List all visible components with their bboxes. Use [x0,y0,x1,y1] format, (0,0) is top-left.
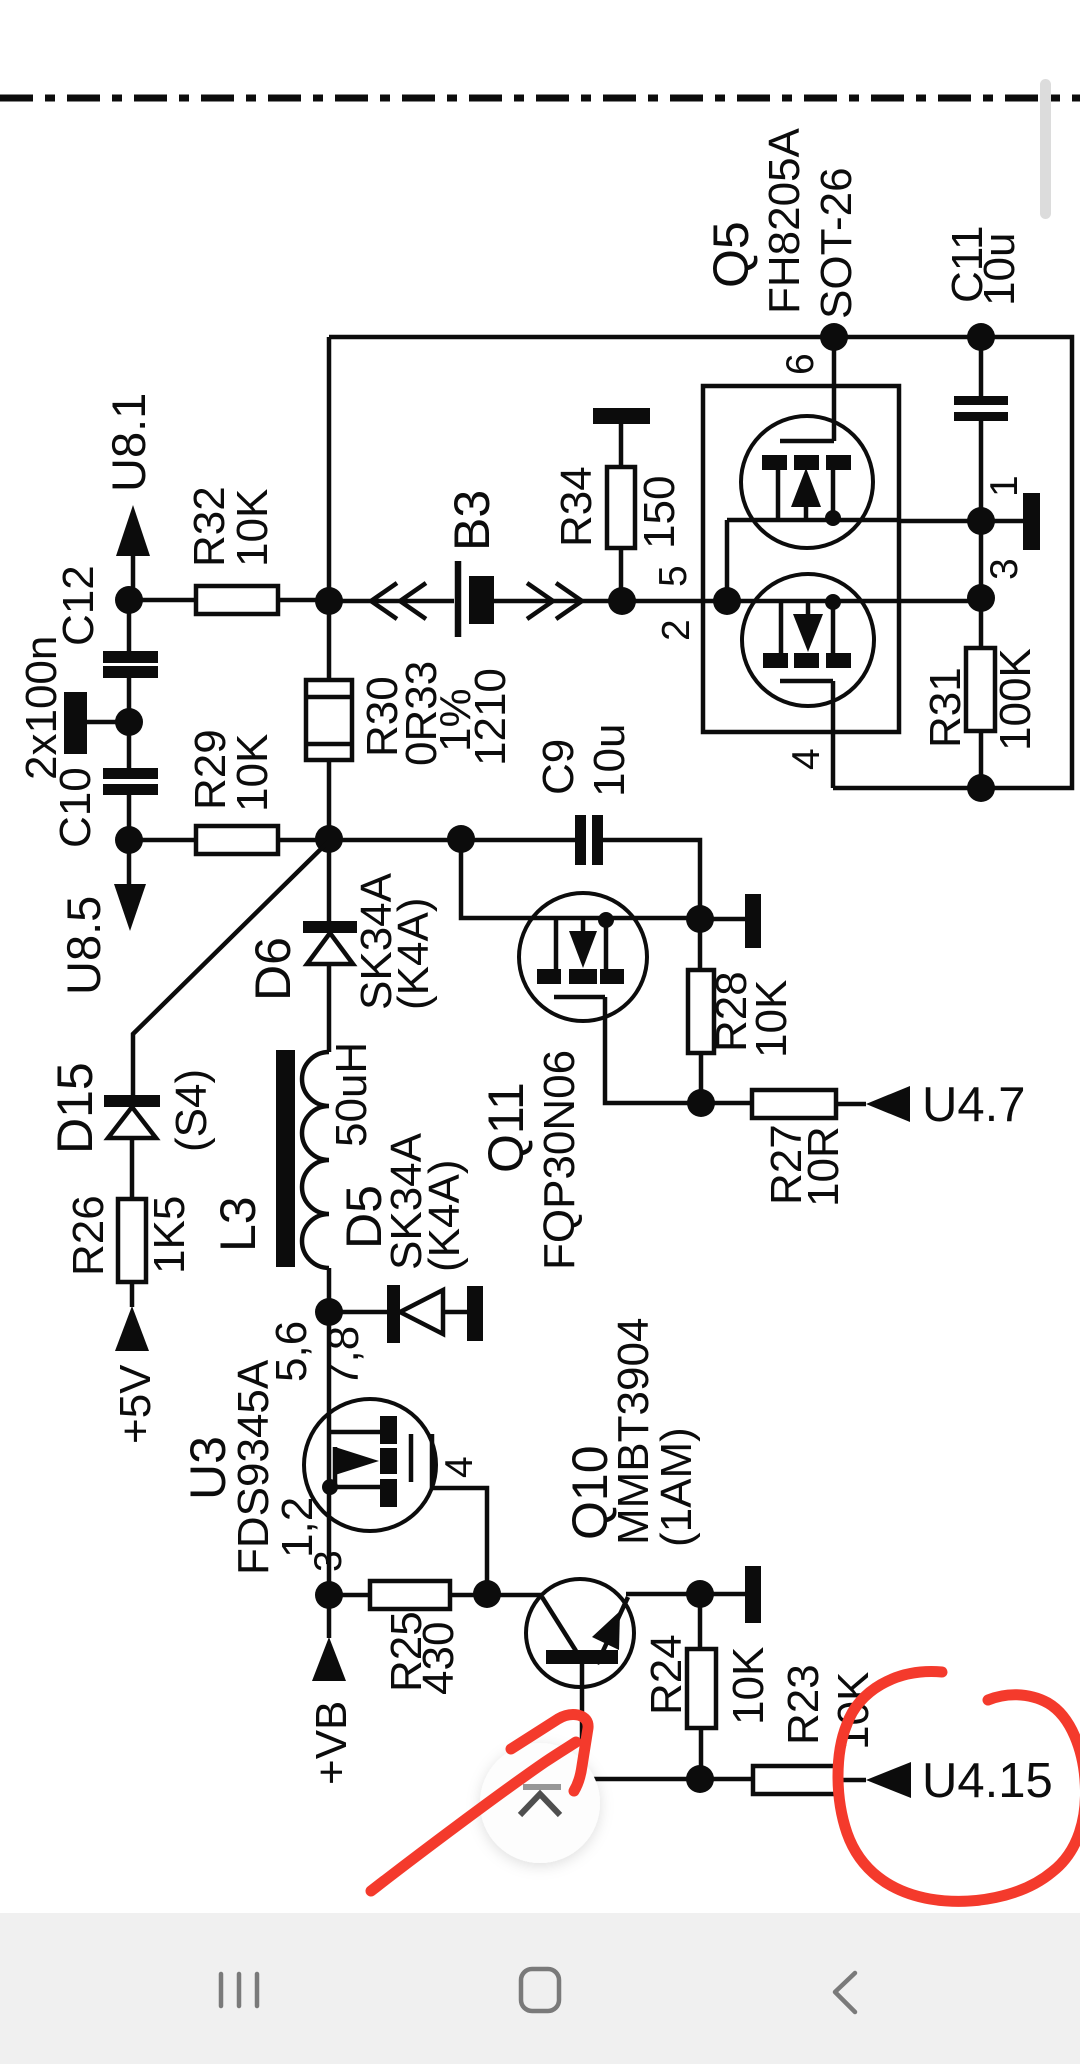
node pin 6 [820,323,848,351]
svg-text:3: 3 [307,1550,350,1572]
svg-text:(K4A): (K4A) [389,898,438,1010]
navigation bar [0,1913,1080,2064]
svg-text:C10: C10 [51,767,100,848]
svg-text:(S4): (S4) [167,1069,216,1152]
transistor Q5 upper MOSFET [727,416,899,601]
red annotation circle around U4.15 [838,1672,1080,1902]
resistor R25 [329,1581,542,1609]
ground bar right of Q10 [745,1566,761,1623]
diode D6 [303,839,357,1052]
wire Q10 emitter row [626,1592,745,1597]
ground bar right of D5 [467,1286,483,1341]
wire L3 to node [327,1268,332,1312]
svg-text:1,2: 1,2 [273,1497,322,1558]
sheet border dash-dot line [0,95,1080,102]
svg-text:4: 4 [785,748,828,770]
resistor R30 [306,601,352,839]
svg-text:1K5: 1K5 [145,1196,194,1274]
inductor L3 core bar [276,1050,295,1267]
flag U8.5 [114,840,146,931]
svg-text:U3: U3 [180,1436,236,1500]
node C12/C10 common [115,708,143,736]
ground bar pin 1 [1023,493,1040,550]
svg-text:3: 3 [983,558,1026,580]
svg-text:R32: R32 [185,486,234,567]
svg-text:150: 150 [635,476,684,549]
transistor Q11 MOSFET [519,893,647,1021]
inductor L3 winding [302,1052,329,1268]
svg-text:R24: R24 [642,1634,691,1715]
svg-text:(K4A): (K4A) [420,1160,469,1272]
arrows left of B3 [371,583,426,619]
node mid-left [315,587,343,615]
svg-text:1: 1 [983,475,1026,497]
wire lower rail to C9 [329,838,575,843]
wire C11 to R31 [979,522,984,788]
red annotation arrowhead at Q10 [511,1715,588,1792]
flag U4.7 [866,1086,910,1122]
svg-text:FH8205A: FH8205A [760,127,809,314]
node C9 branch [447,825,475,853]
svg-text:C9: C9 [534,739,583,795]
svg-text:R34: R34 [552,466,601,547]
capacitor C9 [575,815,700,919]
svg-text:Q5: Q5 [703,221,759,288]
svg-text:2: 2 [655,619,698,641]
scrollbar thumb [1040,79,1051,219]
node C11 top [967,323,995,351]
resistor R26 [118,1199,146,1307]
IC body box Q5 [703,386,899,732]
svg-text:R23: R23 [779,1664,828,1745]
svg-text:U4.15: U4.15 [922,1754,1053,1808]
capacitor C10 [103,722,158,840]
resistor R27 [752,1090,866,1118]
resistor R29 [129,826,330,854]
node R25 right / U3 pin4 [473,1580,501,1608]
node R31 bottom [967,774,995,802]
svg-text:MMBT3904: MMBT3904 [609,1318,658,1545]
svg-text:R31: R31 [921,667,970,748]
svg-text:SOT-26: SOT-26 [812,167,861,319]
recents icon [221,1974,257,2006]
resistor R28 [688,919,714,1103]
flag U8.1 [116,505,150,600]
home icon [521,1969,559,2011]
node emitter/R24 [686,1580,714,1608]
svg-text:10u: 10u [585,724,634,797]
node R34 bottom [608,587,636,615]
node R27 left [687,1089,715,1117]
svg-text:5: 5 [652,565,695,587]
svg-text:+VB: +VB [307,1701,356,1785]
battery B3 [458,561,494,637]
wire Q11 gate [461,839,700,918]
svg-text:10K: 10K [724,1647,773,1725]
wire pin 4 [831,681,836,788]
svg-text:10K: 10K [747,980,796,1058]
power flag +VB [312,1595,346,1681]
svg-text:7,8: 7,8 [319,1326,368,1387]
resistor R24 [687,1594,716,1779]
svg-text:(1AM): (1AM) [652,1427,701,1547]
resistor R31 [966,648,995,731]
node R25 left [315,1581,343,1609]
resistor R34 [607,424,635,601]
back icon [835,1973,855,2012]
red annotation stroke at Q10 [371,1742,576,1891]
svg-text:6: 6 [779,353,822,375]
diode D15 [104,1095,160,1199]
node U8.1/R32 [115,586,143,614]
node pin 3 [967,584,995,612]
svg-text:FQP30N06: FQP30N06 [535,1050,584,1270]
wire pin 1 row [899,519,1023,524]
arrows right of B3 [527,583,582,619]
node R23 left [686,1765,714,1793]
power flag +5V [115,1306,149,1351]
wire pin 6 lead [832,337,837,441]
flag U4.15 [866,1762,911,1798]
diode D5 [329,1285,467,1343]
svg-text:B3: B3 [444,490,500,551]
transistor Q10 [526,1579,634,1779]
svg-text:10K: 10K [228,734,277,812]
svg-text:430: 430 [414,1622,463,1695]
floating action button [480,1743,600,1863]
svg-text:Q11: Q11 [478,1082,534,1173]
resistor R23 [753,1766,866,1794]
svg-text:R26: R26 [64,1195,113,1276]
transistor Q5 lower MOSFET [742,574,874,706]
wire top rail net [329,337,1072,788]
node C10 bottom [115,826,143,854]
wire left vertical x=329 top rail to mid rail [327,337,332,601]
wire Q11 source to R27 [605,997,752,1103]
transistor U3 MOSFET [304,1312,487,1595]
svg-text:10K: 10K [228,489,277,567]
svg-text:D6: D6 [245,937,301,1001]
node R30 bottom rail [315,825,343,853]
svg-text:2x100n: 2x100n [17,636,66,780]
svg-text:U8.1: U8.1 [102,393,155,492]
resistor R32 [129,586,329,614]
svg-text:U8.5: U8.5 [57,896,110,995]
svg-text:C12: C12 [54,565,103,646]
svg-text:10R: 10R [799,1126,848,1207]
ground bar right of Q11 [700,894,761,948]
svg-text:FDS9345A: FDS9345A [229,1359,278,1575]
node Q11 gate/R28 [686,905,714,933]
svg-text:10u: 10u [975,233,1024,306]
svg-text:D15: D15 [47,1062,103,1154]
svg-text:4: 4 [438,1456,481,1478]
node L3/D5/U3 [315,1298,343,1326]
wire base row [582,1777,753,1782]
svg-text:50uH: 50uH [327,1042,376,1147]
node pin1/C11 bottom [967,507,995,535]
svg-text:1210: 1210 [466,668,515,766]
diagonal wire to D15 [133,841,329,1096]
ground bar above R34 [593,408,650,424]
capacitor C12 [103,600,158,722]
svg-text:L3: L3 [210,1196,266,1252]
svg-text:U4.7: U4.7 [922,1078,1026,1132]
node Q5 gate junction [713,587,741,615]
common plate 2x100n [64,692,129,754]
capacitor C11 [954,337,1008,522]
wire mid rail [329,599,981,604]
svg-text:100K: 100K [991,648,1040,751]
svg-text:+5V: +5V [111,1364,160,1444]
